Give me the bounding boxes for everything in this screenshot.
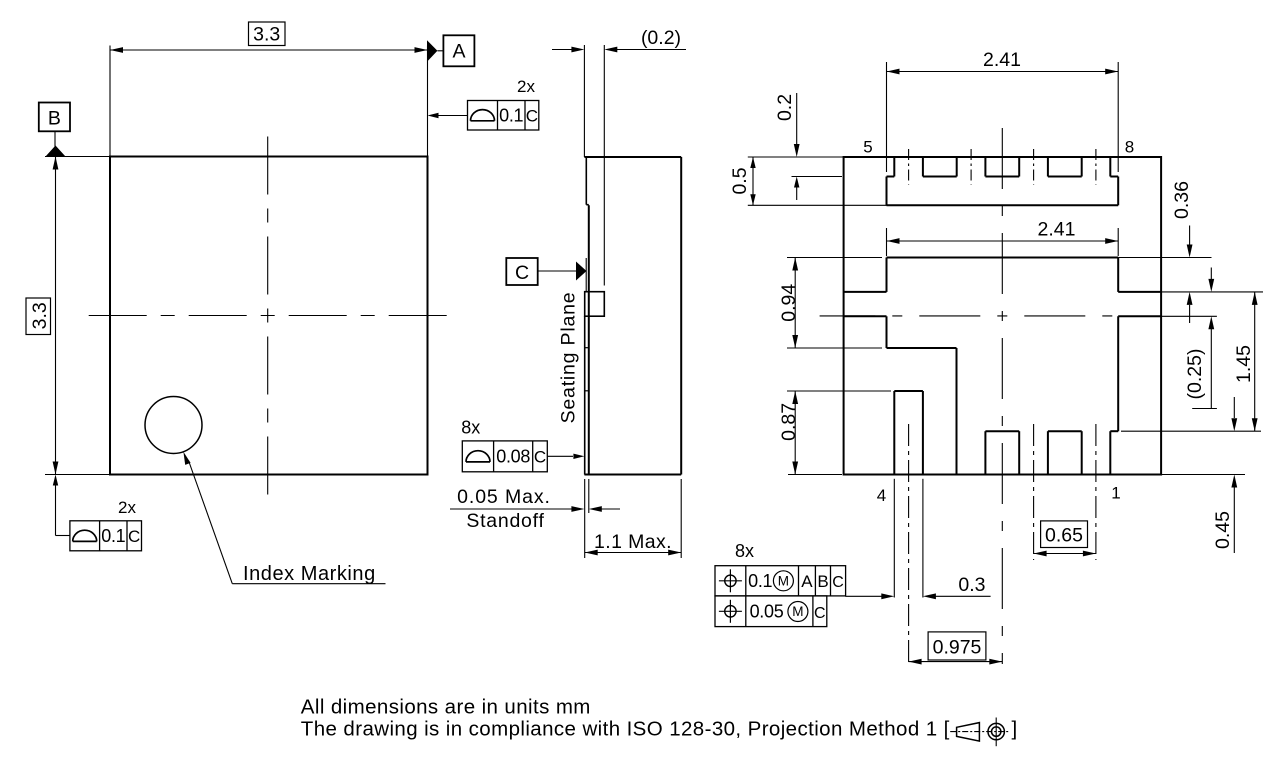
dim 0.45 extension line xyxy=(1161,474,1245,476)
dim 2.41 top extension lines xyxy=(887,62,1119,172)
svg-text:(0.2): (0.2) xyxy=(641,27,681,49)
pin 4 centerline xyxy=(908,424,910,664)
svg-text:1.45: 1.45 xyxy=(1233,345,1255,383)
index marking leader arrow xyxy=(183,452,385,584)
dim 0.65 dimension line xyxy=(1034,551,1096,557)
svg-text:2.41: 2.41 xyxy=(1038,219,1076,241)
pin 4 slot xyxy=(894,391,923,475)
dim 2.41 pad dimension line xyxy=(887,238,1119,244)
datum B label box xyxy=(39,103,70,132)
note compliance xyxy=(301,718,950,741)
svg-text:3.3: 3.3 xyxy=(29,302,51,329)
svg-text:3.3: 3.3 xyxy=(253,24,280,46)
leader from bottom-left frame xyxy=(53,475,70,536)
dim 0.94 dimension line xyxy=(792,258,798,349)
datum A label box xyxy=(443,35,474,66)
index marking label xyxy=(243,563,376,585)
svg-text:The drawing is in compliance w: The drawing is in compliance with ISO 12… xyxy=(301,718,950,741)
dim 0.87 value xyxy=(778,403,800,441)
side view top lead face xyxy=(586,158,589,205)
dim (0.25) arrows xyxy=(1192,268,1217,409)
svg-text:C: C xyxy=(832,574,844,591)
pin label 4 xyxy=(877,486,886,505)
dim 3.3 top extension line left xyxy=(109,46,111,157)
top view vertical centerline xyxy=(267,127,269,501)
closing bracket xyxy=(1012,718,1018,741)
bottom view package outline xyxy=(844,157,1162,475)
svg-text:C: C xyxy=(128,527,140,546)
svg-text:8: 8 xyxy=(1125,138,1134,157)
side view seating lead rect xyxy=(585,292,605,317)
dim 0.94 value xyxy=(778,284,800,322)
dim 3.3 left value box xyxy=(26,298,51,335)
svg-text:4: 4 xyxy=(877,486,886,505)
dim 0.36 arrows xyxy=(1187,226,1193,324)
svg-text:Standoff: Standoff xyxy=(466,510,544,532)
top lead bar pins 5-8 xyxy=(887,157,1119,205)
svg-text:C: C xyxy=(526,107,538,126)
top lead centerlines xyxy=(909,149,1096,185)
pin 2 centerline xyxy=(1033,424,1035,560)
pin label 8 xyxy=(1125,138,1134,157)
svg-text:0.1: 0.1 xyxy=(101,526,125,546)
note units xyxy=(301,696,591,719)
dim 3.3 left extension line top xyxy=(45,156,110,158)
exposed pad outline xyxy=(844,258,1162,475)
index marking circle xyxy=(145,397,202,454)
svg-text:Seating Plane: Seating Plane xyxy=(558,292,580,424)
dim 0.94 extension lines xyxy=(787,258,882,349)
svg-text:Index Marking: Index Marking xyxy=(243,563,376,585)
dim 1.1 Max label xyxy=(594,531,672,553)
dim 0.2 extension line xyxy=(792,176,843,178)
dim 0.975 dimension line xyxy=(909,659,1003,665)
dim 0.45 arrows xyxy=(1231,397,1237,553)
dim 3.3 left dimension line xyxy=(53,157,59,475)
svg-text:5: 5 xyxy=(863,138,872,157)
svg-text:8x: 8x xyxy=(735,541,754,561)
dim 1.45 extension line xyxy=(1121,430,1261,432)
dim 3.3 top extension line right xyxy=(427,46,429,157)
label 8x side view xyxy=(461,418,480,438)
bottom view horizontal centerline xyxy=(820,315,1119,317)
svg-text:0.05 Max.: 0.05 Max. xyxy=(457,486,551,508)
svg-text:]: ] xyxy=(1012,718,1018,741)
dim (0.2) dimension arrows xyxy=(552,47,686,53)
datum B triangle xyxy=(46,146,66,157)
svg-text:B: B xyxy=(48,108,61,130)
side view lower lead face xyxy=(585,316,589,474)
dim 0.5 extension lines xyxy=(748,157,887,205)
svg-text:0.5: 0.5 xyxy=(729,167,751,194)
svg-text:All dimensions are in units mm: All dimensions are in units mm xyxy=(301,696,591,719)
standoff label xyxy=(466,510,544,532)
dim 0.36 extension lines xyxy=(1118,258,1263,292)
bottom view vertical centerline xyxy=(1001,128,1003,664)
label 2x bottom-left xyxy=(118,498,136,517)
svg-text:0.87: 0.87 xyxy=(778,403,800,441)
seating plane label xyxy=(558,292,580,424)
svg-text:0.1: 0.1 xyxy=(499,106,523,126)
svg-text:A: A xyxy=(801,572,813,591)
dim 3.3 top value box xyxy=(249,22,286,46)
svg-text:0.3: 0.3 xyxy=(958,574,985,596)
pin 1 centerline xyxy=(1095,424,1097,560)
dim (0.25) value xyxy=(1184,349,1206,400)
dim 2.41 pad extension lines xyxy=(887,228,1119,256)
dim 2.41 pad value xyxy=(1038,219,1076,241)
label 2x top-right xyxy=(517,77,535,96)
side view extension lines below xyxy=(585,479,682,558)
svg-text:0.08: 0.08 xyxy=(496,447,530,467)
datum C extension stub xyxy=(585,258,587,292)
dim 0.5 dimension line xyxy=(750,157,755,205)
svg-text:8x: 8x xyxy=(461,418,480,438)
dim 0.05 standoff arrows xyxy=(450,506,620,512)
datum B leader line xyxy=(54,131,56,146)
side view body outline xyxy=(584,157,681,475)
dim (0.2) extension line left xyxy=(583,45,585,157)
svg-text:0.94: 0.94 xyxy=(778,284,800,322)
dim 2.41 top value xyxy=(983,49,1021,71)
dim 0.5 value xyxy=(729,167,751,194)
projection method symbol cone xyxy=(957,723,980,742)
bottom slot B xyxy=(1048,431,1082,474)
feature frame profile 0.08 C side view xyxy=(462,441,547,472)
svg-text:M: M xyxy=(792,604,803,619)
svg-text:0.36: 0.36 xyxy=(1171,181,1193,219)
dim 0.87 extension lines xyxy=(787,391,891,475)
top view horizontal centerline xyxy=(84,315,450,317)
svg-text:0.65: 0.65 xyxy=(1045,525,1083,547)
dim 0.2 value xyxy=(774,94,796,121)
svg-text:C: C xyxy=(534,448,546,467)
datum C leader xyxy=(538,270,576,272)
svg-text:0.45: 0.45 xyxy=(1212,511,1234,549)
feature frame position 0.05 M C xyxy=(715,596,827,627)
datum A triangle xyxy=(427,40,443,62)
svg-text:C: C xyxy=(814,605,826,622)
svg-text:B: B xyxy=(817,572,828,591)
dim 0.65 value box xyxy=(1041,521,1088,548)
leader from side frame xyxy=(547,454,584,459)
dim 0.3 value xyxy=(958,574,985,596)
svg-text:1.1 Max.: 1.1 Max. xyxy=(594,531,672,553)
dim 1.45 value xyxy=(1233,345,1255,383)
svg-text:2x: 2x xyxy=(517,77,535,96)
dim 3.3 left extension line bottom xyxy=(45,474,110,476)
dim 0.05 Max label xyxy=(457,486,551,508)
dim 3.3 top dimension line xyxy=(110,47,428,53)
datum C triangle xyxy=(576,262,587,281)
dim (0.25) extension line xyxy=(1161,315,1217,317)
svg-text:(0.25): (0.25) xyxy=(1184,349,1206,400)
svg-text:M: M xyxy=(778,574,789,589)
dim 1.1 Max dimension line xyxy=(585,550,682,556)
projection method symbol centerline xyxy=(950,731,1010,733)
svg-text:C: C xyxy=(515,262,529,284)
pin label 5 xyxy=(863,138,872,157)
svg-text:2.41: 2.41 xyxy=(983,49,1021,71)
feature frame position 0.1 M A B C xyxy=(715,566,846,596)
dim 0.3 arrows xyxy=(845,593,990,599)
svg-text:1: 1 xyxy=(1111,484,1120,503)
dim 0.36 value xyxy=(1171,181,1193,219)
svg-text:2x: 2x xyxy=(118,498,136,517)
datum C label box xyxy=(506,258,537,285)
dim 2.41 top dimension line xyxy=(887,69,1119,75)
dim 0.87 dimension line xyxy=(792,391,798,475)
svg-text:0.2: 0.2 xyxy=(774,94,796,121)
dim 0.3 extension lines xyxy=(894,479,923,598)
projection method symbol circles xyxy=(988,718,1004,747)
label 8x bottom frames xyxy=(735,541,754,561)
top view package body outline xyxy=(110,157,428,475)
svg-text:0.1: 0.1 xyxy=(748,571,772,591)
dim 0.45 value xyxy=(1212,511,1234,549)
svg-text:A: A xyxy=(452,41,465,63)
leader from top-right frame xyxy=(428,113,468,118)
svg-text:0.05: 0.05 xyxy=(750,602,784,622)
bottom slot A xyxy=(985,431,1019,474)
dim 0.975 value box xyxy=(928,632,986,660)
feature frame profile 0.1 C bottom-left xyxy=(70,521,142,551)
dim (0.2) extension line right xyxy=(603,45,605,286)
dim (0.2) value xyxy=(641,27,681,49)
feature frame profile 0.1 C top-right xyxy=(468,101,539,131)
dim 1.45 dimension line xyxy=(1252,292,1258,431)
pin label 1 xyxy=(1111,484,1120,503)
svg-text:0.975: 0.975 xyxy=(933,637,982,659)
dim 0.2 arrows xyxy=(794,93,800,200)
